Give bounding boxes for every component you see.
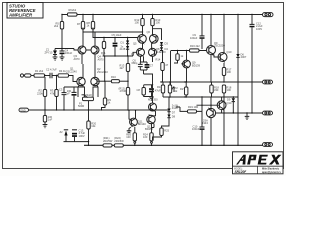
capacitor C2 [46, 68, 57, 79]
svg-text:apex@yurent.rs: apex@yurent.rs [262, 171, 281, 174]
diode D6 right [236, 15, 247, 98]
transistor Q12 MJE350 [148, 98, 158, 112]
resistor R15b vertical bias [180, 81, 188, 97]
resistor R10 horizontal feedback [111, 75, 128, 83]
transistor Q3 2SA970 [74, 46, 87, 61]
capacitor C3 vertical [59, 87, 72, 110]
node Q11 junctions [128, 110, 136, 111]
svg-text:10k: 10k [91, 124, 96, 128]
capacitor C6 miller [132, 59, 143, 71]
svg-text:2R2/5W: 2R2/5W [103, 139, 113, 143]
potentiometer P1 500R between Q1 Q2 emitters [78, 86, 98, 111]
svg-text:ZPY15: ZPY15 [45, 50, 53, 54]
transistor Q15 bias BD139 [183, 60, 201, 68]
wire upper output bus [161, 81, 235, 83]
wire Q3 collector chain [82, 32, 83, 65]
svg-text:GND: GND [20, 109, 26, 112]
svg-text:D7: D7 [172, 111, 176, 115]
wire -V bottom rail [84, 144, 263, 146]
node junction dots on bottom rail [134, 145, 239, 146]
wire R4 to Q1 base [69, 76, 78, 82]
wire Q9 collector to rail [210, 15, 212, 46]
svg-text:100V: 100V [256, 27, 262, 31]
svg-text:2R2/5W: 2R2/5W [114, 139, 124, 143]
svg-text:SR120F: SR120F [235, 170, 248, 174]
wire Q4 collector chain [94, 32, 96, 65]
svg-text:R2?: R2? [180, 87, 185, 91]
resistor R17 emitter driver vertical [222, 63, 232, 82]
connector IN (RCA input) [20, 74, 31, 77]
svg-text:BD140: BD140 [138, 122, 146, 126]
capacitor C10 zobel electrolytic [192, 111, 205, 145]
transistor Q14 driver PNP right [217, 101, 232, 111]
wire feedback takeoff row [97, 80, 111, 82]
node VAS junctions [103, 55, 128, 56]
svg-text:470R: 470R [120, 89, 126, 93]
wire GND bus [29, 109, 89, 111]
svg-text:C3: C3 [59, 88, 63, 92]
wire x252 column to return [251, 82, 253, 113]
svg-text:A970: A970 [74, 57, 81, 61]
resistor R12c 470R vertical [119, 81, 130, 111]
wire bottom-left node line [64, 141, 89, 143]
node bias row junctions [177, 50, 187, 51]
transistor Q8 [149, 47, 167, 56]
svg-text:4148: 4148 [120, 47, 126, 51]
svg-text:uF: uF [67, 92, 70, 96]
resistor R21 emitter 2R2 horizontal on rail [103, 136, 113, 147]
transistor Q13 lower [145, 114, 155, 131]
resistor R16 horizontal to Q9 base [171, 44, 206, 52]
node mid bus junctions [103, 31, 143, 38]
capacitor C13 electrolytic bottom left [72, 129, 86, 142]
svg-text:100: 100 [227, 70, 232, 74]
resistor R7 vertical [77, 15, 85, 32]
svg-text:D3: D3 [165, 42, 169, 46]
svg-text:2k2: 2k2 [72, 8, 77, 12]
resistor R14b shunt vertical [137, 85, 152, 97]
wire output bus [235, 81, 263, 83]
wire input to R1 [31, 75, 34, 77]
wire mid bus upper [83, 28, 143, 33]
connector OUT+ terminal [263, 80, 273, 84]
transistor Q6 MJE350 [147, 30, 159, 45]
resistor R17a vertical small [174, 51, 184, 64]
potentiometer P2 bias trimmer [168, 82, 178, 97]
ground symbol on speaker return [245, 113, 250, 120]
wire Q6 collector jog to diode column [153, 29, 162, 40]
zener Z1 ZPY15 [45, 48, 58, 61]
resistor R8 1k vertical [87, 15, 95, 32]
svg-text:100: 100 [135, 21, 140, 25]
svg-text:100: 100 [126, 135, 131, 139]
svg-text:100: 100 [227, 88, 232, 92]
resistor R22 emitter 2R2 horizontal on rail [114, 136, 124, 147]
capacitor C9a electrolytic shunt [149, 85, 161, 97]
svg-text:R1 2k2: R1 2k2 [35, 69, 44, 73]
svg-text:A970: A970 [98, 57, 105, 61]
resistor R13b 4k7 vertical [120, 56, 130, 81]
transistor Q4 2SA970 [91, 46, 104, 61]
svg-text:100uF: 100uF [65, 51, 73, 55]
svg-text:1uF: 1uF [48, 118, 53, 122]
diode D7 protection stack [167, 97, 178, 112]
resistor R13 collector vertical [151, 15, 161, 35]
node x252 return junction [251, 112, 252, 113]
wire Q9 emitter to Q10 base chain [213, 15, 224, 58]
resistor R23 vertical above rail [126, 127, 136, 145]
wire R1 to C2 [45, 75, 49, 77]
svg-text:1943: 1943 [202, 121, 208, 125]
svg-text:R14: R14 [156, 58, 161, 62]
ground symbol under shunt pair [149, 97, 154, 101]
node zener junction [61, 48, 62, 49]
wire lower bias bus [163, 96, 238, 98]
wire shunt pair tie [144, 84, 153, 86]
resistor R14 vertical [157, 82, 165, 97]
svg-text:C5 10uF: C5 10uF [112, 33, 122, 37]
svg-text:2k2: 2k2 [54, 24, 59, 28]
border frame [3, 3, 284, 169]
wire Q1 Q2 collectors up [83, 64, 95, 78]
svg-text:C2 4.7uF: C2 4.7uF [46, 68, 57, 72]
wire VAS column down [104, 56, 106, 98]
transistor Q11 lower mid [130, 118, 147, 127]
svg-text:4k7: 4k7 [120, 66, 125, 70]
ground symbol below Q11 [127, 127, 132, 134]
transistor Q10 driver [218, 50, 232, 63]
wire Q9 emitter column [210, 55, 212, 83]
wire Q11 base feed [129, 110, 136, 120]
diode D9 output [227, 96, 235, 113]
wire mid cap link [140, 56, 147, 74]
resistor R24 vertical above rail [143, 124, 153, 146]
wire Q1 emitter to C3/C1 node [64, 86, 83, 88]
capacitor C1 electrolytic vertical [72, 87, 77, 110]
wire bias transistor column [171, 51, 187, 86]
svg-text:Q14: Q14 [227, 101, 232, 105]
svg-text:D8: D8 [172, 115, 176, 119]
svg-text:47uF: 47uF [155, 89, 161, 93]
wire zobel connection [176, 97, 202, 111]
resistor R20 vertical on wiper column [87, 110, 97, 146]
svg-text:(500uF): (500uF) [83, 93, 92, 97]
connector +V terminal [263, 13, 274, 17]
svg-text:100: 100 [143, 135, 148, 139]
svg-text:Q10: Q10 [227, 50, 232, 54]
transistor Q2 2SC2240 [91, 67, 109, 86]
wire output pair connections [197, 97, 226, 113]
svg-text:R14: R14 [157, 85, 162, 89]
resistor R1 [34, 69, 45, 77]
svg-text:220k: 220k [37, 91, 43, 95]
wire Q3 Q4 base rail [74, 49, 91, 51]
capacitor C7 electrolytic mid [145, 62, 154, 70]
wire mid bus lower [93, 28, 138, 38]
wire Q5 Q7 emitter link [141, 43, 153, 62]
svg-text:Q6: Q6 [147, 30, 151, 34]
zener Z2 bottom left [60, 130, 69, 142]
node output pair junctions [201, 105, 238, 114]
transistor Q5 MJE340 [133, 35, 146, 46]
svg-text:R10: R10 [111, 75, 116, 79]
node GND bus junctions [44, 109, 74, 110]
svg-text:D1: D1 [121, 41, 125, 45]
resistor R11 1k vertical [101, 38, 106, 58]
svg-text:MJE350: MJE350 [148, 98, 158, 102]
resistor R18 vertical lower [222, 85, 232, 97]
svg-text:R7: R7 [77, 22, 81, 26]
model label text [234, 168, 281, 174]
diode D2 [120, 44, 130, 56]
svg-text:100uF: 100uF [190, 36, 198, 40]
svg-text:4007: 4007 [241, 55, 247, 59]
resistor R6 horizontal on rail [68, 8, 78, 16]
svg-text:Q7: Q7 [131, 52, 135, 56]
svg-text:330: 330 [214, 88, 219, 92]
resistor R3 47k vertical [50, 76, 58, 111]
svg-text:500R: 500R [78, 104, 84, 108]
node shunt tie junction [152, 84, 153, 85]
wire speaker return [225, 112, 263, 114]
node feedback takeoff junction [104, 81, 105, 82]
node R13b junction [127, 55, 128, 82]
connector GND terminal [19, 108, 29, 112]
svg-text:BD139: BD139 [192, 63, 200, 67]
wire Q12 Q13 column [152, 97, 156, 128]
svg-text:100nF: 100nF [192, 127, 200, 131]
resistor R9 tail vertical [101, 98, 112, 111]
svg-text:680p: 680p [132, 61, 138, 65]
resistor R25 vertical left column [153, 121, 170, 141]
transistor Q9 driver NPN [207, 41, 226, 56]
capacitor C9 electrolytic right [190, 15, 205, 50]
wire VAS node [104, 52, 137, 56]
node bus junctions [160, 81, 252, 97]
transistor Q7 [131, 48, 145, 56]
svg-text:1k: 1k [181, 54, 184, 58]
wire bottom columns to rail [211, 97, 238, 145]
node speaker return junction [246, 112, 247, 113]
svg-text:C8: C8 [137, 88, 141, 92]
wire C2 to R4 [54, 75, 59, 77]
node R2 top junction [44, 75, 45, 76]
svg-text:47: 47 [165, 63, 168, 67]
svg-text:C7: C7 [150, 64, 154, 68]
capacitor C4 100uF electrolytic [60, 49, 73, 61]
transistor Q15b output PNP right [202, 107, 216, 125]
resistor R12 collector vertical [135, 15, 145, 35]
resistor R2 220k vertical [37, 77, 47, 110]
resistor R19 zobel horizontal [183, 105, 202, 113]
svg-text:2SC2240: 2SC2240 [66, 69, 77, 73]
capacitor C5 electrolytic [112, 33, 122, 56]
svg-text:AMPLIFIER: AMPLIFIER [8, 13, 33, 18]
svg-text:R25: R25 [164, 129, 169, 133]
svg-text:100: 100 [156, 21, 161, 25]
title box [7, 3, 43, 19]
diode D3 right stack [160, 42, 168, 46]
connector -V terminal [263, 143, 273, 147]
diode D1 [121, 38, 130, 45]
node junction dots on top rail [61, 14, 252, 15]
ground symbol below R5 [43, 125, 48, 128]
diode D8 protection stack [167, 111, 175, 121]
wire VAS output column [89, 74, 170, 110]
capacitor C12 supply electrolytic [250, 15, 264, 83]
resistor R18a vertical [210, 82, 220, 97]
diode D4 right stack [160, 45, 168, 51]
svg-text:R16 2k2: R16 2k2 [190, 44, 200, 48]
svg-text:D4: D4 [165, 47, 169, 51]
wire zener node [55, 48, 74, 50]
transistor Q1 2SC2240 [66, 67, 85, 86]
svg-text:2SC2240: 2SC2240 [97, 70, 108, 74]
node input bias junction [56, 75, 57, 76]
resistor R14a vertical mid [156, 51, 169, 83]
svg-text:Z2: Z2 [60, 130, 64, 134]
resistor R5 1k vertical to ground [43, 110, 52, 125]
svg-text:D9: D9 [227, 98, 231, 102]
resistor R5a vertical from top rail [54, 15, 64, 49]
connector OUT- terminal [263, 111, 273, 115]
svg-text:47k: 47k [50, 91, 55, 95]
wire +V top rail [62, 14, 263, 16]
svg-text:Q5: Q5 [133, 42, 137, 46]
APEX title block box [233, 152, 284, 174]
resistor R4 [58, 69, 69, 77]
APEX logo wordmark [236, 155, 281, 165]
svg-text:100V: 100V [79, 134, 85, 138]
